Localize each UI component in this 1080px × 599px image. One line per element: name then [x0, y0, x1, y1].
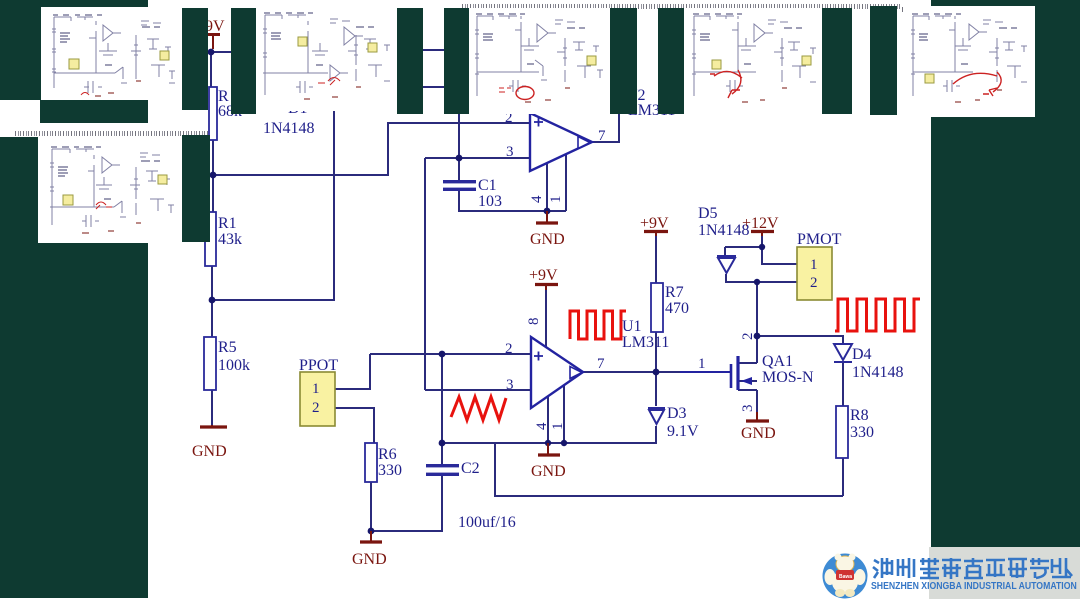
svg-text:QA1: QA1	[762, 353, 793, 370]
svg-text:+12V: +12V	[742, 215, 779, 232]
svg-text:3: 3	[506, 144, 514, 160]
svg-text:3: 3	[506, 377, 514, 393]
svg-text:R8: R8	[850, 407, 869, 424]
svg-text:R7: R7	[665, 284, 684, 301]
svg-text:9.1V: 9.1V	[667, 423, 699, 440]
svg-text:103: 103	[478, 193, 502, 210]
svg-text:PPOT: PPOT	[299, 357, 338, 374]
svg-text:470: 470	[665, 300, 689, 317]
svg-text:4: 4	[529, 195, 545, 203]
svg-text:1: 1	[550, 423, 566, 431]
svg-text:100k: 100k	[218, 357, 250, 374]
svg-text:2: 2	[810, 275, 818, 291]
svg-text:R5: R5	[218, 339, 237, 356]
svg-text:1: 1	[810, 257, 818, 273]
svg-text:1N4148: 1N4148	[852, 364, 904, 381]
svg-text:GND: GND	[352, 551, 387, 568]
svg-text:D5: D5	[698, 205, 718, 222]
svg-text:D4: D4	[852, 346, 872, 363]
svg-text:GND: GND	[741, 425, 776, 442]
svg-text:2: 2	[312, 400, 320, 416]
svg-text:2: 2	[740, 333, 756, 341]
svg-text:C1: C1	[478, 177, 497, 194]
svg-text:C2: C2	[461, 460, 480, 477]
svg-text:100uf/16: 100uf/16	[458, 514, 516, 531]
svg-text:7: 7	[597, 356, 605, 372]
svg-text:1N4148: 1N4148	[263, 120, 315, 137]
svg-text:2: 2	[505, 341, 513, 357]
svg-text:1: 1	[698, 356, 706, 372]
svg-text:R6: R6	[378, 446, 397, 463]
svg-text:D3: D3	[667, 405, 687, 422]
svg-text:LM311: LM311	[622, 334, 669, 351]
svg-text:330: 330	[378, 462, 402, 479]
svg-text:330: 330	[850, 424, 874, 441]
svg-text:8: 8	[526, 318, 542, 326]
svg-text:4: 4	[534, 422, 550, 430]
svg-text:43k: 43k	[218, 231, 242, 248]
svg-text:GND: GND	[531, 463, 566, 480]
svg-text:Bawa: Bawa	[839, 574, 852, 580]
svg-text:GND: GND	[530, 231, 565, 248]
svg-text:MOS-N: MOS-N	[762, 369, 814, 386]
svg-text:+9V: +9V	[640, 215, 669, 232]
svg-text:PMOT: PMOT	[797, 231, 842, 248]
svg-text:3: 3	[740, 405, 756, 413]
svg-text:U1: U1	[622, 318, 642, 335]
svg-text:GND: GND	[192, 443, 227, 460]
svg-text:R1: R1	[218, 215, 237, 232]
svg-text:1: 1	[548, 196, 564, 204]
svg-text:1: 1	[312, 381, 320, 397]
svg-text:+9V: +9V	[529, 267, 558, 284]
svg-text:7: 7	[598, 128, 606, 144]
